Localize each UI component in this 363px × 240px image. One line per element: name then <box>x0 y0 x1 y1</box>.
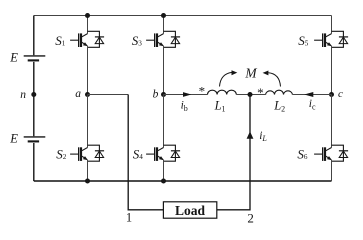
svg-text:*: * <box>257 85 264 100</box>
wire: phase-a leg between node a and S2 collector <box>87 95 89 148</box>
transistor S5 (IGBT with anti-parallel diode) <box>314 31 348 47</box>
junction dot top rail / S1 leg <box>85 13 90 18</box>
inductor L1 <box>208 90 237 94</box>
mutual inductance arrow (right, from L2 toward M) <box>269 73 281 87</box>
transistor S2 (IGBT with anti-parallel diode) <box>70 145 104 161</box>
node n junction dot <box>31 92 36 97</box>
wire: phase-b leg between node b and S4 collector <box>163 95 165 148</box>
wire: node a to output terminal 1 (right then down to Load) <box>88 94 129 96</box>
junction dot top rail / S3 leg <box>161 13 166 18</box>
current arrow iL <box>247 131 254 138</box>
wire: node b to L1 (with ib arrow) <box>164 94 208 96</box>
battery E (lower source) <box>24 137 46 142</box>
svg-text:L2: L2 <box>273 99 285 114</box>
svg-text:2: 2 <box>247 211 254 226</box>
wire: L2 to node c (with ic arrow) <box>292 94 331 96</box>
wire: left rail lower segment to bottom rail <box>33 143 35 181</box>
wire: phase-b leg from S4 emitter to bottom rail <box>163 160 165 181</box>
junction dot between L1 and L2 (load tap) <box>248 92 253 97</box>
wire: bottom DC rail <box>34 180 332 182</box>
wire: right leg between S5 emitter and node c <box>331 46 333 95</box>
wire: left DC rail (upper segment to battery E top) <box>33 16 35 56</box>
node c junction dot <box>329 92 334 97</box>
svg-text:S5: S5 <box>298 33 309 48</box>
svg-text:S3: S3 <box>132 33 143 48</box>
svg-text:ib: ib <box>181 100 188 113</box>
transistor S4 (IGBT with anti-parallel diode) <box>146 145 180 161</box>
svg-text:S2: S2 <box>56 147 66 162</box>
wire: phase-a leg between S1 emitter and node a <box>87 46 89 95</box>
node a junction dot <box>85 92 90 97</box>
svg-text:iL: iL <box>259 130 267 143</box>
transistor S1 (IGBT with anti-parallel diode) <box>70 31 104 47</box>
svg-text:E: E <box>9 131 18 145</box>
svg-text:Load: Load <box>175 203 206 218</box>
node b junction dot <box>161 92 166 97</box>
wire: right leg upper (top rail corner to S5 collector) <box>331 16 333 34</box>
battery E (upper source) <box>24 56 46 61</box>
svg-text:a: a <box>75 88 81 100</box>
svg-text:1: 1 <box>126 211 132 225</box>
wire: L1 to centre junction <box>236 94 265 96</box>
Load box <box>163 202 216 218</box>
wire: left rail between batteries through node n <box>33 62 35 136</box>
current arrow ic <box>304 92 313 97</box>
wire: right leg between node c and S6 collector <box>331 95 333 148</box>
junction dot bottom rail / S4 leg <box>161 179 166 184</box>
wire: right leg from S6 emitter to bottom rail <box>331 160 333 181</box>
svg-text:b: b <box>153 88 159 100</box>
wire: phase-b leg upper (rail to S3 collector) <box>163 16 165 34</box>
wire: phase-b leg between S3 emitter and node b <box>163 46 165 95</box>
wire: centre junction down to terminal 2 (with iL arrow) <box>217 95 250 210</box>
svg-text:M: M <box>244 66 257 81</box>
svg-text:*: * <box>199 84 206 99</box>
transistor S6 (IGBT with anti-parallel diode) <box>314 145 348 161</box>
mutual inductance arrow (left, from L1 toward M) <box>220 72 233 86</box>
svg-text:L1: L1 <box>214 99 226 114</box>
svg-text:E: E <box>9 50 18 64</box>
svg-text:S6: S6 <box>297 147 308 162</box>
current arrow ib <box>183 92 191 97</box>
wire: top DC rail <box>34 15 332 17</box>
svg-text:c: c <box>338 88 343 100</box>
wire: phase-a leg upper (rail to S1 collector) <box>87 16 89 34</box>
svg-text:ic: ic <box>309 98 316 111</box>
svg-text:S1: S1 <box>55 33 66 48</box>
svg-text:n: n <box>20 89 26 101</box>
wire: phase-a leg from S2 emitter to bottom rail <box>87 160 89 181</box>
inductor L2 <box>266 90 293 94</box>
transistor S3 (IGBT with anti-parallel diode) <box>146 31 180 47</box>
junction dot bottom rail / S2 leg <box>85 179 90 184</box>
svg-text:S4: S4 <box>133 147 144 162</box>
